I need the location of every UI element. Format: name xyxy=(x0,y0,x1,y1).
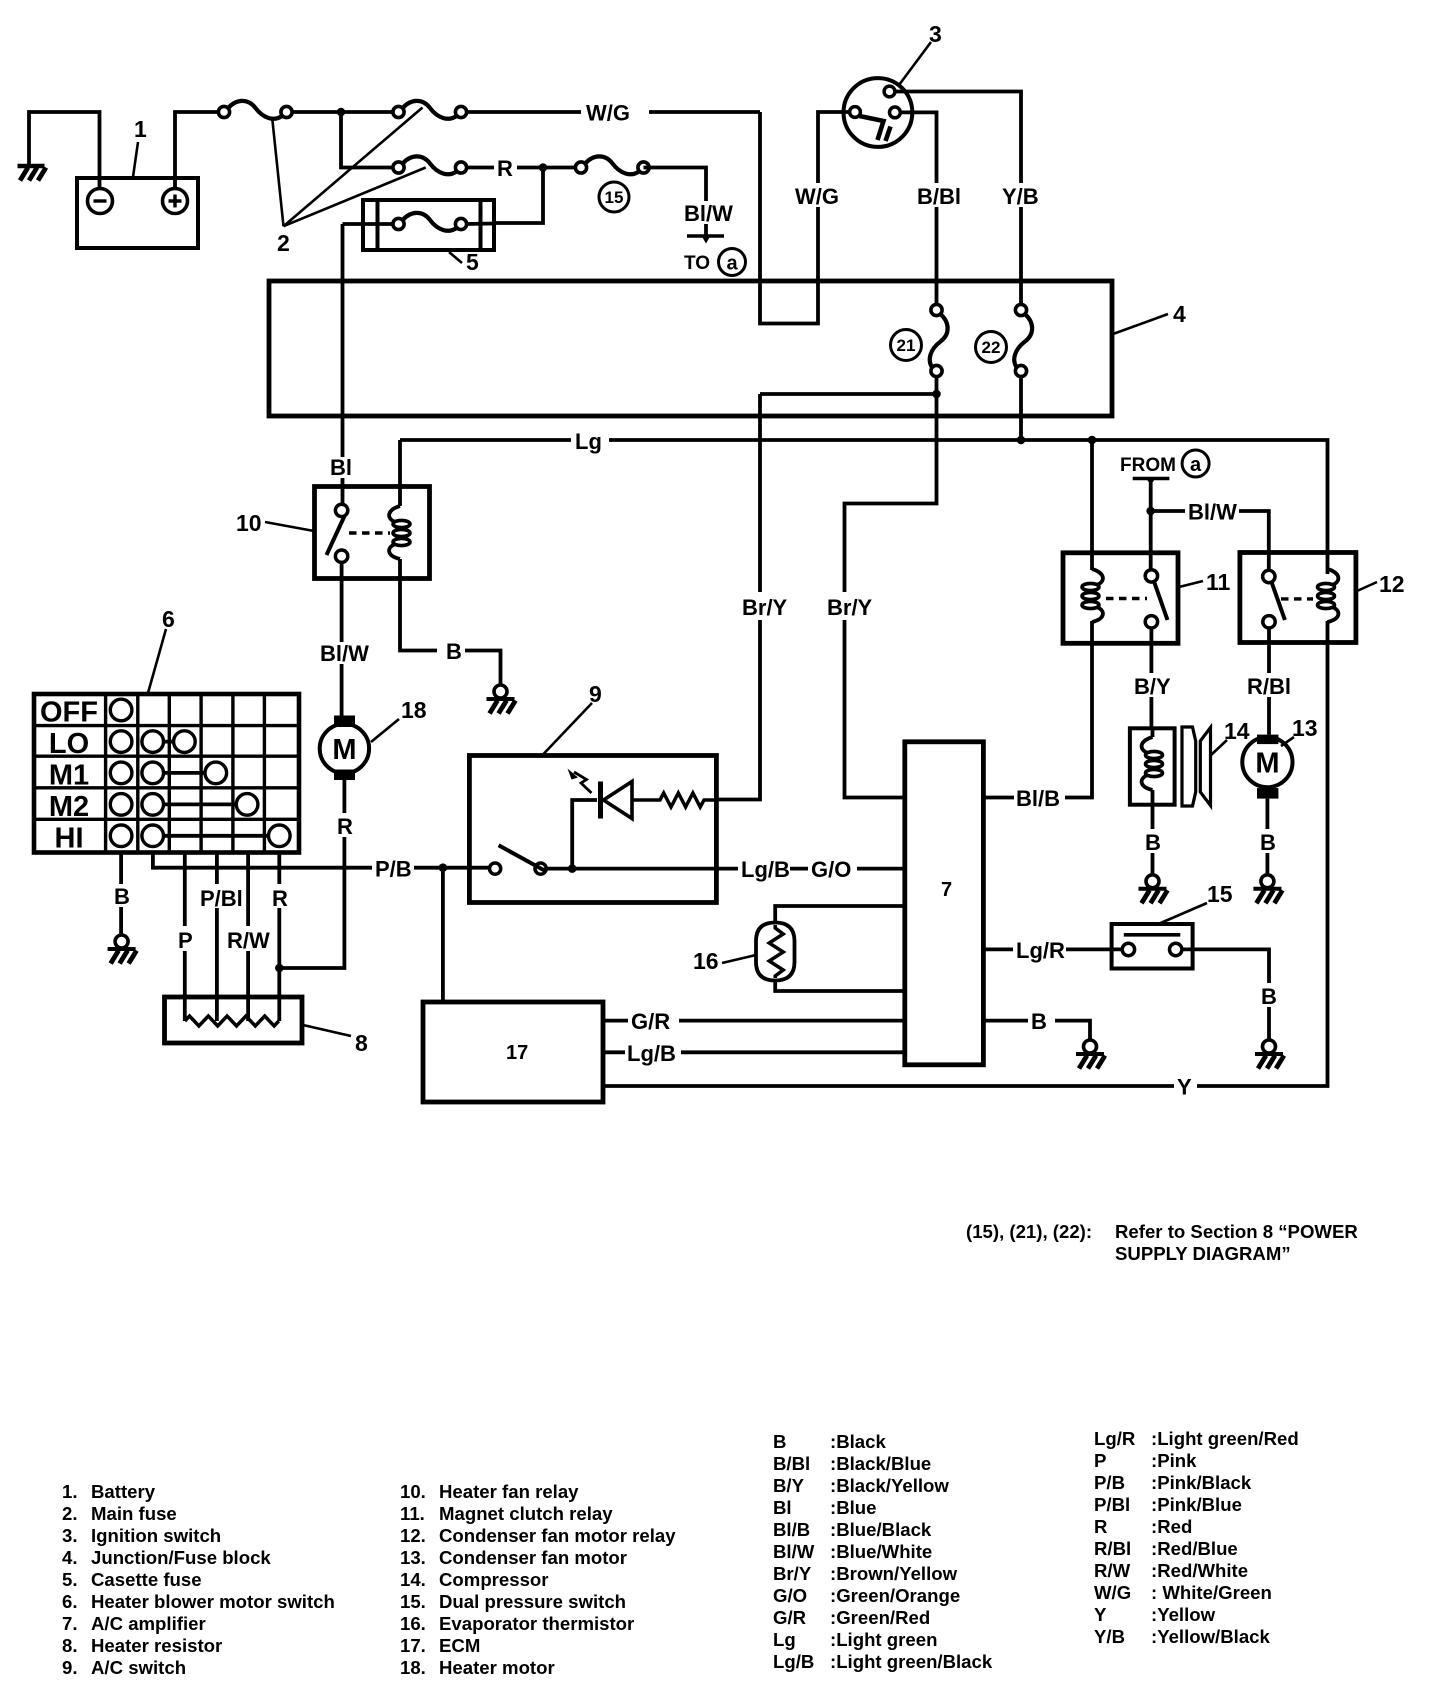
wire G/R (ECM to amplifier) xyxy=(603,1019,905,1023)
svg-text:R: R xyxy=(1094,1516,1108,1537)
wire fuse21 to node xyxy=(935,377,939,394)
label 10 xyxy=(236,510,314,536)
svg-text:Main fuse: Main fuse xyxy=(91,1503,177,1524)
switch contacts xyxy=(110,699,290,846)
relay 10 dashed link xyxy=(349,531,390,534)
svg-text:Condenser fan motor: Condenser fan motor xyxy=(439,1547,627,1568)
svg-text:Bl/W: Bl/W xyxy=(684,201,733,226)
A/C amplifier 7 xyxy=(905,742,984,1065)
wire Y/B xyxy=(895,92,1021,305)
svg-text:FROM: FROM xyxy=(1120,455,1176,476)
svg-text:R: R xyxy=(272,886,288,911)
wire R/Bl (relay 12 to fan motor) xyxy=(1267,628,1271,735)
svg-text:Battery: Battery xyxy=(91,1481,156,1502)
svg-text:17: 17 xyxy=(506,1042,528,1064)
svg-text::Red/Blue: :Red/Blue xyxy=(1151,1538,1238,1559)
svg-text:Heater fan relay: Heater fan relay xyxy=(439,1481,579,1502)
svg-text:21: 21 xyxy=(897,336,916,355)
node dot R xyxy=(275,964,284,973)
wire P/Bl xyxy=(215,853,219,1022)
svg-text::Pink/Blue: :Pink/Blue xyxy=(1151,1494,1242,1515)
svg-text:B: B xyxy=(1031,1009,1047,1034)
svg-text:6.: 6. xyxy=(62,1591,78,1612)
ground (compressor) xyxy=(1139,875,1168,904)
svg-text::Light green/Black: :Light green/Black xyxy=(830,1651,993,1672)
svg-text:14: 14 xyxy=(1224,718,1250,744)
wire Bl/W (relay10 to heater motor) xyxy=(340,562,344,716)
wire Bl/B (amplifier to relay 11 coil) xyxy=(983,621,1092,798)
wire P/B xyxy=(153,853,490,868)
svg-text:6: 6 xyxy=(162,606,175,632)
svg-text::Light green/Red: :Light green/Red xyxy=(1151,1428,1299,1449)
svg-text:1: 1 xyxy=(134,116,147,142)
label 16 xyxy=(693,948,756,974)
node dot fuse21 xyxy=(932,390,941,399)
svg-text:B/Bl: B/Bl xyxy=(917,184,961,209)
compressor 14 clutch coil xyxy=(1130,728,1175,804)
node dot LED xyxy=(568,864,577,873)
svg-text:B: B xyxy=(446,639,462,664)
legend list right (10-18) xyxy=(400,1481,676,1678)
svg-text:OFF: OFF xyxy=(40,697,98,729)
svg-text:2: 2 xyxy=(277,230,290,256)
svg-text:A/C amplifier: A/C amplifier xyxy=(91,1613,206,1634)
ground (pressure switch) xyxy=(1255,1040,1284,1069)
relay 12 switch blade xyxy=(1272,582,1285,620)
wire R (switch col6) xyxy=(277,853,281,1022)
wire Bl/W to TO(a) xyxy=(644,168,707,238)
A/C switch 9 box xyxy=(469,756,716,903)
node dot Bl/W xyxy=(1146,507,1155,516)
svg-text:7.: 7. xyxy=(62,1613,78,1634)
svg-text:M: M xyxy=(1255,748,1279,780)
ground (relay 10 coil) xyxy=(487,685,516,714)
svg-text:Bl/W: Bl/W xyxy=(320,641,369,666)
svg-text:B: B xyxy=(773,1431,786,1452)
svg-text:B: B xyxy=(1261,984,1277,1009)
svg-text:3: 3 xyxy=(929,21,942,47)
svg-text:4: 4 xyxy=(1173,301,1186,327)
svg-text:Heater motor: Heater motor xyxy=(439,1657,555,1678)
wire R (heater motor) xyxy=(279,780,344,968)
svg-text:15: 15 xyxy=(1207,881,1233,907)
label 11 xyxy=(1179,569,1231,595)
magnet clutch relay 11 xyxy=(1063,553,1178,644)
svg-text:W/G: W/G xyxy=(795,184,839,209)
wire to junction xyxy=(293,110,394,114)
svg-text:Heater blower motor switch: Heater blower motor switch xyxy=(91,1591,335,1612)
node junction dot xyxy=(337,108,346,117)
evaporator thermistor 16 xyxy=(756,923,795,981)
wire battery negative to ground xyxy=(29,112,100,189)
svg-text:(15), (21), (22):: (15), (21), (22): xyxy=(966,1221,1092,1242)
svg-text::Green/Orange: :Green/Orange xyxy=(830,1585,960,1606)
wire B (switch to ground) xyxy=(119,853,123,936)
relay 11 dashed link xyxy=(1106,597,1147,600)
svg-text:R/Bl: R/Bl xyxy=(1094,1538,1131,1559)
wire Bl (cassette fuse to relay 10) xyxy=(341,224,345,505)
svg-text:Br/Y: Br/Y xyxy=(827,595,873,620)
svg-text:2.: 2. xyxy=(62,1503,78,1524)
ECM 17 xyxy=(423,1002,603,1102)
svg-text:R/Bl: R/Bl xyxy=(1247,674,1291,699)
svg-text:Bl/B: Bl/B xyxy=(773,1519,810,1540)
svg-text:M: M xyxy=(332,734,356,766)
wire battery positive xyxy=(175,112,218,188)
svg-text::Yellow/Black: :Yellow/Black xyxy=(1151,1626,1271,1647)
label 6 xyxy=(148,606,175,693)
fuse 15 xyxy=(575,156,649,174)
relay 11 coil xyxy=(1082,569,1103,622)
wire switch to LED node xyxy=(547,867,717,871)
svg-text:Lg/B: Lg/B xyxy=(773,1651,814,1672)
svg-text:SUPPLY DIAGRAM”: SUPPLY DIAGRAM” xyxy=(1115,1243,1291,1264)
wire Bl/W (to relay 12) xyxy=(1151,511,1269,571)
svg-text:18.: 18. xyxy=(400,1657,426,1678)
battery 1 xyxy=(77,178,198,248)
resistor element xyxy=(185,1016,279,1026)
svg-text:11: 11 xyxy=(1206,569,1231,595)
svg-text:G/R: G/R xyxy=(773,1607,807,1628)
svg-text:R/W: R/W xyxy=(227,928,270,953)
svg-text:M1: M1 xyxy=(49,760,89,792)
wire P xyxy=(183,853,187,1022)
svg-text::Green/Red: :Green/Red xyxy=(830,1607,930,1628)
svg-text:5: 5 xyxy=(466,249,479,275)
wire P/B branch to ECM xyxy=(441,868,445,1002)
wire from R junction to cassette fuse xyxy=(494,168,543,224)
relay 12 switch pins xyxy=(1263,570,1275,582)
svg-text:Lg/B: Lg/B xyxy=(741,857,790,882)
svg-text:G/R: G/R xyxy=(631,1009,670,1034)
wire B/Y (relay 11 to compressor) xyxy=(1150,628,1154,728)
label 8 xyxy=(303,1025,368,1056)
svg-text:Lg: Lg xyxy=(575,429,602,454)
svg-text:HI: HI xyxy=(55,823,84,855)
svg-text:P/B: P/B xyxy=(375,857,412,882)
condenser fan motor relay 12 xyxy=(1240,553,1356,643)
svg-text::Pink: :Pink xyxy=(1151,1450,1197,1471)
svg-text:12: 12 xyxy=(1379,571,1405,597)
svg-text:B: B xyxy=(1260,830,1276,855)
svg-text:TO: TO xyxy=(684,253,710,274)
A/C switch blade xyxy=(499,845,545,870)
label 5 xyxy=(449,249,479,275)
wire Y (ECM to relay 12 coil) xyxy=(603,621,1328,1086)
svg-text:Bl/W: Bl/W xyxy=(1188,500,1237,525)
condenser fan motor 13 xyxy=(1242,735,1292,799)
heater motor 18 xyxy=(320,716,369,781)
svg-text:B/Y: B/Y xyxy=(1134,674,1171,699)
node dot Lg/fuse22 xyxy=(1017,436,1026,445)
wire R/W xyxy=(246,853,250,1022)
svg-text:1.: 1. xyxy=(62,1481,78,1502)
wire block internal (to Br/Y left) xyxy=(760,392,937,396)
svg-text:4.: 4. xyxy=(62,1547,78,1568)
svg-text::Light green: :Light green xyxy=(830,1629,937,1650)
svg-text:Junction/Fuse block: Junction/Fuse block xyxy=(91,1547,271,1568)
circled 22 xyxy=(976,332,1007,363)
label 9 xyxy=(543,681,602,755)
svg-text:a: a xyxy=(726,253,738,275)
ignition switch 3 xyxy=(844,78,913,147)
svg-text:P: P xyxy=(178,928,193,953)
svg-text:15: 15 xyxy=(605,188,624,207)
node dot Lg/relay11 xyxy=(1088,436,1097,445)
svg-text::Black/Blue: :Black/Blue xyxy=(830,1453,931,1474)
svg-text:8.: 8. xyxy=(62,1635,78,1656)
svg-text:3.: 3. xyxy=(62,1525,78,1546)
LED diode xyxy=(568,769,633,819)
relay 10 switch pins xyxy=(335,504,347,516)
svg-text::Pink/Black: :Pink/Black xyxy=(1151,1472,1252,1493)
svg-text:Heater resistor: Heater resistor xyxy=(91,1635,222,1656)
color code list left xyxy=(773,1431,993,1672)
svg-text:G/O: G/O xyxy=(773,1585,807,1606)
LED series resistor xyxy=(632,793,716,807)
label 2 with leader lines xyxy=(272,108,425,257)
color code list right xyxy=(1094,1428,1299,1647)
svg-text:Y: Y xyxy=(1177,1075,1192,1100)
label 12 xyxy=(1357,571,1405,597)
svg-text:Bl/W: Bl/W xyxy=(773,1541,815,1562)
wire Lg/B G/O (A/C switch to amplifier) xyxy=(716,867,905,871)
wire relay10 coil to B ground xyxy=(400,559,501,685)
svg-text:Lg: Lg xyxy=(773,1629,796,1650)
wire R xyxy=(467,166,577,170)
svg-text:11.: 11. xyxy=(400,1503,425,1524)
main fuse (W/G row) xyxy=(393,101,467,119)
relay 10 coil xyxy=(389,506,410,559)
svg-text::Brown/Yellow: :Brown/Yellow xyxy=(830,1563,958,1584)
wire LED cathode xyxy=(572,800,597,869)
switch row labels xyxy=(40,697,98,855)
wire B/Bl xyxy=(900,112,936,304)
heater fan relay 10 xyxy=(315,487,430,579)
svg-text:7: 7 xyxy=(941,879,952,901)
svg-text:P/B: P/B xyxy=(1094,1472,1125,1493)
svg-text:P/Bl: P/Bl xyxy=(1094,1494,1130,1515)
wire cassette fuse internal xyxy=(343,222,495,226)
svg-text:A/C switch: A/C switch xyxy=(91,1657,186,1678)
wire Lg/B (ECM to amplifier) xyxy=(603,1050,905,1054)
svg-text:a: a xyxy=(1190,454,1202,476)
svg-text:Bl: Bl xyxy=(330,455,352,480)
svg-text:22: 22 xyxy=(982,338,1001,357)
wire Lg xyxy=(400,440,1328,574)
FROM (a) arrow xyxy=(1133,477,1170,486)
label 1 xyxy=(133,116,147,177)
label 4 xyxy=(1113,301,1186,334)
switch contact links xyxy=(164,742,269,836)
ground (battery negative) xyxy=(18,166,47,181)
svg-text:Br/Y: Br/Y xyxy=(773,1563,812,1584)
svg-text::Blue: :Blue xyxy=(830,1497,876,1518)
label 13 xyxy=(1281,715,1318,746)
svg-text:9: 9 xyxy=(589,681,602,707)
svg-text:R: R xyxy=(497,156,513,181)
svg-text:12.: 12. xyxy=(400,1525,426,1546)
ground (fan motor) xyxy=(1253,875,1282,904)
svg-text::Yellow: :Yellow xyxy=(1151,1604,1216,1625)
wire from(a) down xyxy=(1149,483,1153,570)
svg-text:9.: 9. xyxy=(62,1657,78,1678)
label 3 xyxy=(899,21,942,85)
heater blower motor switch 6 xyxy=(34,694,299,853)
svg-text:B: B xyxy=(1145,830,1161,855)
wire B (pressure switch to ground) xyxy=(1182,949,1269,1040)
dual pressure switch 15 xyxy=(1112,924,1193,969)
svg-text:Casette fuse: Casette fuse xyxy=(91,1569,202,1590)
node a (from) xyxy=(1182,450,1209,477)
relay 12 coil xyxy=(1318,569,1339,622)
svg-text:M2: M2 xyxy=(49,791,89,823)
svg-text:13: 13 xyxy=(1292,715,1318,741)
heater resistor 8 xyxy=(165,997,303,1043)
node a (to) xyxy=(719,249,746,276)
svg-text:5.: 5. xyxy=(62,1569,78,1590)
fuse 22 xyxy=(1014,304,1032,376)
svg-text:B/Bl: B/Bl xyxy=(773,1453,810,1474)
svg-text:10.: 10. xyxy=(400,1481,426,1502)
wire Br/Y (left, to A/C switch LED) xyxy=(716,394,760,800)
svg-text:Y/B: Y/B xyxy=(1002,184,1039,209)
fuse (cassette) xyxy=(393,213,467,231)
node junction dot R xyxy=(539,163,548,172)
svg-text:Y: Y xyxy=(1094,1604,1107,1625)
label 14 xyxy=(1211,718,1250,755)
compressor pulley xyxy=(1182,727,1211,806)
svg-text:13.: 13. xyxy=(400,1547,426,1568)
svg-text:Lg/R: Lg/R xyxy=(1094,1428,1136,1449)
cassette fuse box 5 xyxy=(363,200,494,250)
svg-text:LO: LO xyxy=(49,728,89,760)
svg-text::Blue/Black: :Blue/Black xyxy=(830,1519,932,1540)
svg-text:W/G: W/G xyxy=(1094,1582,1131,1603)
svg-text:16: 16 xyxy=(693,948,719,974)
svg-text:Bl: Bl xyxy=(773,1497,792,1518)
svg-text:Ignition switch: Ignition switch xyxy=(91,1525,221,1546)
svg-text::Red: :Red xyxy=(1151,1516,1192,1537)
ground (amplifier) xyxy=(1076,1040,1105,1069)
svg-text:Magnet clutch relay: Magnet clutch relay xyxy=(439,1503,613,1524)
relay 10 switch blade xyxy=(327,516,345,555)
A/C switch contacts xyxy=(490,863,501,874)
junction/fuse block 4 xyxy=(269,281,1112,416)
wire branch to R fuse row xyxy=(341,112,393,168)
wire B (amplifier to ground) xyxy=(983,1021,1090,1040)
label 15 (switch) xyxy=(1156,881,1233,925)
svg-text:G/O: G/O xyxy=(811,857,851,882)
svg-text:R/W: R/W xyxy=(1094,1560,1131,1581)
wire Br/Y (right, to A/C amplifier) xyxy=(845,394,937,798)
svg-text:Br/Y: Br/Y xyxy=(742,595,788,620)
svg-text:Lg/B: Lg/B xyxy=(627,1041,676,1066)
main fuse (R row) xyxy=(393,156,467,174)
svg-text:16.: 16. xyxy=(400,1613,426,1634)
legend list left (1-9) xyxy=(62,1481,335,1678)
node dot P/B xyxy=(439,863,448,872)
svg-text:Dual pressure switch: Dual pressure switch xyxy=(439,1591,626,1612)
svg-text:P/Bl: P/Bl xyxy=(200,886,243,911)
TO (a) arrow xyxy=(687,235,724,244)
svg-text::Black/Yellow: :Black/Yellow xyxy=(830,1475,949,1496)
svg-text:W/G: W/G xyxy=(586,101,630,126)
svg-text:8: 8 xyxy=(355,1030,368,1056)
svg-text:15.: 15. xyxy=(400,1591,426,1612)
wire Lg to relay 11 coil xyxy=(1090,440,1094,570)
wire Lg/R (amplifier to pressure switch) xyxy=(983,948,1122,952)
svg-text:Compressor: Compressor xyxy=(439,1569,549,1590)
svg-text:B/Y: B/Y xyxy=(773,1475,805,1496)
svg-text:10: 10 xyxy=(236,510,262,536)
wire Lg to relay 10 coil xyxy=(398,440,402,506)
wire B (compressor to ground) xyxy=(1151,805,1155,875)
fuse 21 xyxy=(930,304,948,376)
svg-text:P: P xyxy=(1094,1450,1106,1471)
relay 12 dashed link xyxy=(1281,597,1313,600)
label 18 xyxy=(371,697,427,742)
svg-text:: White/Green: : White/Green xyxy=(1151,1582,1272,1603)
svg-text:R: R xyxy=(337,814,353,839)
svg-text::Blue/White: :Blue/White xyxy=(830,1541,932,1562)
relay 11 switch blade xyxy=(1154,582,1168,621)
svg-text:17.: 17. xyxy=(400,1635,426,1656)
svg-text:Condenser fan motor relay: Condenser fan motor relay xyxy=(439,1525,676,1546)
svg-text:Evaporator thermistor: Evaporator thermistor xyxy=(439,1613,634,1634)
svg-text:Refer to Section 8 “POWER: Refer to Section 8 “POWER xyxy=(1115,1221,1358,1242)
wire fuse22 to Lg line xyxy=(1019,377,1023,440)
wire W/G xyxy=(467,112,851,324)
svg-text:ECM: ECM xyxy=(439,1635,480,1656)
svg-text:Y/B: Y/B xyxy=(1094,1626,1125,1647)
circled 21 xyxy=(891,330,922,361)
svg-text::Black: :Black xyxy=(830,1431,886,1452)
ground (blower switch) xyxy=(108,935,137,964)
relay 11 switch pins xyxy=(1145,570,1157,582)
main fuse (left) xyxy=(218,101,292,119)
svg-text:Lg/R: Lg/R xyxy=(1016,938,1065,963)
circled 15 xyxy=(599,182,629,212)
svg-text:Bl/B: Bl/B xyxy=(1016,786,1060,811)
svg-text:18: 18 xyxy=(401,697,427,723)
svg-text:B: B xyxy=(114,884,130,909)
svg-text::Red/White: :Red/White xyxy=(1151,1560,1248,1581)
wire B (fan motor to ground) xyxy=(1266,799,1270,875)
svg-text:14.: 14. xyxy=(400,1569,426,1590)
thermistor wires to amplifier xyxy=(775,906,905,991)
